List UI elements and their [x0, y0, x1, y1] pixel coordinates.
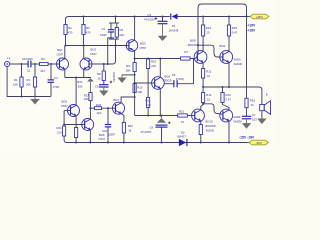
wire speaker bottom [261, 111, 263, 119]
resistor R18 [245, 98, 248, 108]
resistor R12 [199, 125, 202, 135]
svg-text:R9: R9 [126, 64, 130, 68]
node BG6 base [63, 123, 65, 125]
node BG4 base [134, 82, 136, 84]
resistor R14 [202, 93, 205, 103]
svg-text:47U/25V: 47U/25V [141, 130, 152, 134]
wire link to BG11 base [203, 104, 223, 115]
svg-text:BG8: BG8 [190, 39, 196, 43]
svg-text:10: 10 [251, 103, 255, 107]
wire R3 column [34, 64, 36, 97]
wire BG6 emitter [89, 130, 91, 143]
svg-text:18: 18 [128, 129, 132, 133]
svg-text:1K: 1K [98, 77, 102, 81]
node R12 rail [200, 141, 202, 143]
svg-text:R4: R4 [41, 57, 45, 61]
svg-text:C10: C10 [102, 129, 108, 133]
svg-text:R21: R21 [179, 110, 185, 114]
wire R16 to BG11 collector [223, 103, 230, 110]
wire R3b bottom [83, 35, 85, 46]
svg-text:R14: R14 [206, 93, 212, 97]
wire R12 to rail [200, 135, 202, 143]
svg-text:R26: R26 [96, 103, 102, 107]
svg-text:20K: 20K [26, 83, 31, 87]
wire BG2 collector riser [83, 46, 85, 59]
bottom rail nodes [75, 141, 163, 143]
svg-text:R2: R2 [68, 26, 72, 30]
wire C10 column [107, 108, 109, 124]
resistor R21 [63, 126, 66, 136]
svg-text:3DD15D: 3DD15D [205, 124, 216, 128]
svg-text:0.47: 0.47 [226, 98, 232, 102]
wire R25 bottom [75, 138, 77, 143]
node BG3 rail [134, 15, 136, 17]
svg-text:10K: 10K [13, 83, 18, 87]
svg-text:4K7: 4K7 [40, 69, 45, 73]
svg-text:R24: R24 [77, 80, 83, 84]
wire R11 to output line [202, 78, 204, 87]
node line B left [147, 114, 149, 116]
resistor R22 [122, 123, 125, 134]
svg-text:C2: C2 [102, 27, 106, 31]
node R1 bottom [20, 95, 22, 97]
wire BG2 emitter drop [83, 69, 85, 77]
svg-text:BG9: BG9 [220, 44, 226, 48]
node R8 tap [103, 63, 105, 65]
resistor R31 [147, 98, 150, 108]
svg-text:R13: R13 [137, 86, 143, 90]
node jog tap [107, 63, 109, 65]
svg-text:200: 200 [78, 84, 83, 88]
wire R2 bottom [65, 35, 67, 46]
svg-text:C9: C9 [150, 126, 154, 130]
svg-text:-15V -18V: -15V -18V [239, 136, 255, 140]
svg-text:10K: 10K [84, 97, 89, 101]
wire feedback jog [108, 38, 114, 64]
wire C10 bottom [107, 127, 109, 143]
wire bottom rail [67, 142, 250, 144]
svg-text:47U/25V: 47U/25V [144, 17, 155, 21]
svg-text:L1: L1 [7, 56, 11, 60]
svg-text:C7: C7 [252, 113, 256, 117]
ground C3 [158, 24, 168, 41]
resistor R17 horizontal [178, 114, 188, 117]
wire C2R6 down to BG2 base line [92, 39, 116, 64]
svg-text:100/25V: 100/25V [112, 72, 116, 82]
wire R14 to BG10 collector [201, 103, 203, 110]
ground zobel [242, 119, 251, 129]
node gnd tap chain [122, 74, 136, 76]
wire R10 column [147, 59, 149, 116]
diode D2 [179, 139, 187, 146]
wire R27 to base line [90, 101, 92, 109]
node BG3 to bias row [134, 57, 136, 59]
svg-text:C557: C557 [140, 46, 147, 50]
wire BG7 collector [121, 97, 135, 103]
resistor R6 [115, 28, 118, 38]
wire over-top [198, 4, 247, 54]
svg-text:R1: R1 [14, 78, 18, 82]
svg-text:10K: 10K [137, 90, 142, 94]
svg-text:C547: C547 [90, 52, 97, 56]
node R27 column [89, 107, 91, 109]
resistor R25 [75, 128, 78, 138]
svg-text:R15: R15 [232, 26, 238, 30]
resistor R13 [202, 25, 205, 36]
wire BG3 bottom [134, 51, 136, 63]
resistor R1 [20, 77, 23, 87]
wire BG5 emitter drop [75, 116, 77, 128]
wire C1 to R4 [31, 63, 39, 65]
svg-text:510: 510 [146, 103, 151, 107]
capacitor C1 [28, 61, 31, 68]
wire line B [135, 115, 178, 117]
wire R22 bottom [123, 133, 125, 143]
wire BG9 emitter to output [228, 63, 230, 88]
node at R3 top [34, 63, 36, 65]
svg-text:R10: R10 [151, 60, 157, 64]
ground speaker [257, 119, 266, 125]
wire R13 to BG8 collector [202, 36, 204, 52]
resistor R9 [133, 63, 136, 72]
wire top rail right of D1 [178, 16, 246, 18]
svg-text:+18V: +18V [247, 28, 256, 32]
node C3 [161, 15, 163, 17]
power flag +35V [250, 14, 269, 19]
svg-text:3DD340: 3DD340 [188, 43, 199, 47]
wire BG7 emitter to R22 [121, 114, 124, 123]
svg-text:BA437: BA437 [178, 135, 187, 139]
svg-text:R8: R8 [97, 72, 101, 76]
wire BG5 base [64, 110, 70, 112]
svg-text:+15V: +15V [247, 24, 256, 28]
node C10 tap [107, 107, 109, 109]
wire tail down to BG5 [75, 78, 77, 106]
node at R1 top [20, 63, 22, 65]
svg-text:R13: R13 [206, 26, 212, 30]
wire arrow stem [90, 82, 92, 93]
wire C4 column [50, 64, 52, 80]
transistor BG3 [126, 40, 138, 52]
wire output line [203, 86, 259, 88]
transistor BG7 [113, 102, 125, 114]
node R3b rail [82, 15, 84, 17]
svg-text:R3: R3 [27, 78, 31, 82]
wire C9 bottom [161, 127, 163, 142]
resistor R26 [95, 107, 102, 110]
svg-text:470: 470 [68, 31, 73, 35]
svg-text:R31: R31 [145, 99, 151, 103]
resistor R3 [33, 77, 36, 87]
svg-text:18K: 18K [126, 69, 131, 73]
svg-text:R21: R21 [57, 126, 63, 130]
wire node line A [65, 45, 127, 47]
wire bias row [135, 58, 181, 60]
wire chain down to line B [134, 72, 136, 116]
wire L1 down to ground rail [7, 67, 51, 97]
node line B emitter [159, 114, 161, 116]
wire to +35V flag [247, 16, 251, 18]
svg-text:R7: R7 [185, 50, 189, 54]
ground C6 [99, 87, 108, 96]
wire BG8 emitter [202, 63, 204, 69]
wire R15 top [228, 17, 230, 26]
wire R4 to BG1 base [48, 63, 56, 65]
svg-text:3AD30: 3AD30 [233, 120, 242, 124]
svg-text:47N(J): 47N(J) [176, 77, 184, 81]
transistor BG5 [68, 105, 80, 117]
wire BG4 emitter drop [159, 89, 161, 116]
diode D1 [171, 14, 178, 20]
node BG4 coll tap [159, 57, 161, 59]
svg-text:R16: R16 [226, 93, 232, 97]
node rail R13 [202, 15, 204, 17]
wire LTP tail [65, 77, 91, 79]
svg-text:BG3: BG3 [140, 42, 146, 46]
svg-text:220: 220 [151, 64, 156, 68]
transistor BG11 [220, 109, 233, 122]
svg-text:3AD30: 3AD30 [234, 62, 243, 66]
capacitor C6 [99, 81, 112, 87]
node rail C2R6 [114, 15, 116, 17]
resistor R27 [89, 93, 92, 101]
svg-text:BG4: BG4 [165, 74, 171, 78]
svg-text:C547: C547 [57, 52, 64, 56]
node R10 hang [147, 57, 149, 59]
wire R14 column [202, 87, 204, 93]
ground input rail [30, 97, 40, 105]
wire top rail left with corner [66, 17, 170, 25]
resistor R3b [82, 25, 85, 35]
wire R15 to BG9 collector [228, 36, 230, 52]
wire link to BG9 base [198, 45, 223, 57]
svg-text:220P: 220P [108, 133, 115, 137]
wire BG10 emitter [200, 121, 202, 125]
wire R8 to C6 [103, 81, 105, 85]
wire input row [10, 63, 28, 65]
svg-text:3AD30: 3AD30 [206, 129, 215, 133]
svg-text:R22: R22 [128, 124, 134, 128]
svg-text:B: B [266, 93, 268, 97]
svg-text:C547: C547 [99, 137, 106, 141]
resistor R11 [202, 69, 205, 79]
node R3 bottom [34, 95, 36, 97]
svg-text:BG7: BG7 [114, 98, 120, 102]
resistor R15 [227, 25, 230, 36]
svg-text:R11: R11 [206, 70, 211, 74]
resistor R8 [102, 71, 105, 81]
svg-text:3DG9: 3DG9 [164, 79, 172, 83]
wire BG3 top riser [134, 17, 136, 41]
ground chain [117, 75, 126, 83]
svg-text:C1: C1 [27, 69, 31, 73]
svg-text:10U/50V: 10U/50V [22, 57, 33, 61]
svg-text:3AD9: 3AD9 [234, 58, 241, 62]
svg-text:120: 120 [57, 130, 62, 134]
svg-text:10: 10 [181, 120, 185, 124]
wire C4 to ground rail [50, 82, 52, 96]
power arrow R27 [87, 78, 94, 81]
svg-text:BG10: BG10 [206, 120, 214, 124]
node rail R15 [228, 15, 230, 17]
transistor BG2 [80, 58, 92, 70]
svg-text:C6: C6 [95, 84, 99, 88]
node flag join [245, 15, 247, 17]
resistor R10b [133, 84, 136, 93]
wire zobel column [246, 17, 248, 99]
transistor BG10 [192, 109, 205, 122]
connector L1 [5, 61, 10, 66]
wire BG1 collector riser [64, 46, 66, 59]
capacitor C9 [156, 122, 171, 127]
svg-text:R3: R3 [86, 26, 90, 30]
capacitor C2 [108, 30, 114, 32]
power flag -35V [249, 140, 269, 145]
svg-text:+35V: +35V [256, 15, 263, 19]
transistor BG9 [220, 51, 233, 64]
transistor BG8 [194, 51, 207, 64]
wire BG1 emitter drop [64, 69, 66, 77]
svg-text:470: 470 [86, 31, 91, 35]
svg-text:0.47: 0.47 [232, 31, 238, 35]
node C9 [160, 114, 162, 116]
capacitor C3 [155, 17, 168, 24]
wire R8 column [103, 64, 105, 71]
svg-text:103: 103 [252, 117, 257, 121]
wire BG4 base [135, 82, 152, 84]
wire R17 to BG10 base [187, 115, 195, 117]
svg-text:3AD9: 3AD9 [233, 115, 240, 119]
svg-text:1N4148: 1N4148 [169, 28, 179, 32]
capacitor C10 [105, 125, 111, 127]
svg-text:15: 15 [207, 31, 211, 35]
wire R16 column [222, 87, 224, 93]
node BG11 rail [228, 141, 230, 143]
transistor BG4 [152, 77, 165, 90]
transistor BG6 [82, 119, 94, 131]
wire R1 column [21, 64, 23, 97]
wire BG4 collector riser [159, 59, 161, 78]
capacitor C5 [165, 59, 194, 88]
resistor R7 [181, 57, 191, 60]
capacitor C4 [48, 80, 55, 82]
capacitor C7 [242, 116, 251, 119]
node R14 link tap [202, 103, 204, 105]
transistor BG1 [57, 58, 69, 70]
node A junctions [64, 44, 116, 46]
svg-text:R18: R18 [250, 99, 256, 103]
wire BG5 base column [63, 111, 65, 125]
node over-top tap [197, 44, 199, 46]
resistor R2 [64, 25, 67, 35]
svg-text:C4: C4 [54, 76, 58, 80]
svg-text:R6: R6 [120, 28, 124, 32]
wire R13 top [202, 17, 204, 26]
marker C9 plus [157, 116, 166, 123]
wire speaker feed [259, 87, 262, 105]
wire BG11 emitter [228, 121, 230, 143]
wire R18 to C7 [246, 108, 248, 116]
svg-text:1K2: 1K2 [97, 111, 102, 115]
output nodes [202, 86, 230, 88]
wire R3b top [83, 17, 85, 25]
resistor R4 [40, 62, 49, 65]
node tail [75, 76, 77, 78]
svg-text:100P: 100P [100, 33, 107, 37]
wire BG6 collector to BG7 base [90, 108, 112, 119]
svg-text:10: 10 [207, 74, 211, 78]
resistor R16 [221, 93, 224, 103]
wire R7 to driver base [190, 56, 197, 59]
speaker Y1 [260, 101, 271, 115]
svg-text:-35V: -35V [256, 141, 262, 145]
wire BG6 base [64, 124, 85, 126]
node C4 tap [50, 63, 52, 65]
svg-text:470P: 470P [53, 85, 60, 89]
resistor R10 [147, 59, 150, 69]
svg-text:15: 15 [207, 98, 211, 102]
svg-text:12K: 12K [119, 33, 124, 37]
svg-text:C547: C547 [61, 104, 68, 108]
wire R21 to bottom rail [64, 136, 67, 143]
wire C2R6 hanger [109, 17, 119, 40]
